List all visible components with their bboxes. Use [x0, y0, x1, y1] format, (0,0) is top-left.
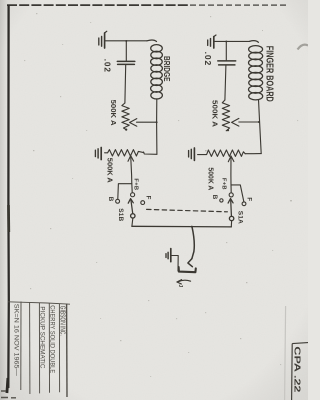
jack J tip contact	[188, 259, 193, 267]
ground G2 (R2 left end)	[95, 147, 101, 159]
svg-text:SK=N 16 NOV 1965—: SK=N 16 NOV 1965—	[12, 304, 18, 376]
contact F (S1B)	[141, 201, 145, 205]
svg-text:500K A: 500K A	[109, 100, 118, 127]
svg-text:500K A: 500K A	[105, 158, 114, 184]
wire: branch to B contact	[118, 184, 132, 199]
volume pot R2 500K A (horizontal zigzag)	[105, 150, 144, 156]
bridge coil L1	[147, 40, 162, 99]
svg-text:500K A: 500K A	[210, 100, 219, 128]
title block row rules	[20, 302, 22, 391]
capacitor C2 .02	[218, 61, 236, 65]
svg-text:FINGER BOARD: FINGER BOARD	[263, 46, 274, 102]
wiper of R4 (arrow up, stem to switch)	[228, 156, 234, 192]
wire: L1 bottom to hot bus down	[156, 99, 158, 155]
svg-text:GIBSON INC.: GIBSON INC.	[58, 306, 67, 336]
wire: S1A pole to output bus	[230, 221, 232, 227]
pole of S1B	[131, 214, 135, 218]
tone pot R3 500K A (vertical zigzag)	[222, 100, 229, 131]
ground G4 (R4 left end)	[189, 148, 195, 160]
wire: S1B pole to output bus	[131, 219, 134, 227]
ground G3 (finger top)	[208, 35, 216, 48]
svg-text:B: B	[107, 197, 114, 202]
wire: bus corner to volume pot R2	[144, 152, 157, 154]
wire: G5 to sleeve	[171, 256, 178, 272]
wire: G1 to bridge coil top	[105, 40, 147, 42]
junction dots	[125, 40, 260, 228]
switch S1B blade	[128, 199, 133, 214]
capacitor C1 .02	[117, 61, 135, 64]
svg-text:500K A: 500K A	[206, 167, 215, 191]
contact B (S1A, floating)	[220, 199, 223, 202]
wiper of R1 (arrow to hot bus)	[130, 119, 157, 127]
switch S1A blade	[228, 199, 233, 216]
wire: bus to jack tip	[192, 227, 194, 259]
svg-text:S1A: S1A	[237, 211, 244, 224]
svg-text:F: F	[144, 196, 151, 200]
pole of S1A	[229, 216, 233, 220]
wire: C1 to tone pot R1	[124, 65, 127, 103]
page border: bottom-left end	[7, 378, 8, 393]
wire: G3 to finger coil top	[215, 40, 250, 42]
output bus wire	[132, 225, 231, 228]
title block top rule	[8, 302, 70, 304]
contact B (S1B)	[116, 199, 120, 203]
svg-text:F+B: F+B	[132, 178, 138, 190]
title block	[8, 302, 70, 398]
wire: C2 to tone pot R3	[225, 65, 226, 100]
wiper of R2 (arrow up, stem to switch)	[128, 156, 134, 192]
page border: left rule	[7, 5, 10, 388]
ground G1 (bridge top)	[99, 31, 107, 48]
svg-text:BRIDGE: BRIDGE	[162, 56, 172, 82]
contact F+B common (S1B)	[131, 193, 135, 197]
svg-text:S1B: S1B	[117, 208, 124, 221]
wiper of R3 (arrow to hot bus)	[232, 118, 259, 126]
wire: L2 bottom hot bus down	[259, 100, 262, 154]
ground G5 (jack sleeve)	[166, 249, 171, 262]
svg-text:.02: .02	[203, 52, 212, 67]
svg-text:J: J	[177, 284, 183, 287]
crease bottom-right	[285, 306, 286, 400]
jack J sleeve	[179, 267, 196, 272]
finger coil L2	[249, 41, 263, 100]
svg-text:PICKUP SCHEMATIC: PICKUP SCHEMATIC	[38, 306, 45, 368]
CPA 22 box	[292, 343, 308, 400]
svg-text:B: B	[211, 195, 218, 200]
wire: cap tap down	[225, 42, 227, 61]
dashed gang link S1B-S1A	[147, 209, 228, 211]
contact F+B common (S1A)	[229, 193, 233, 197]
wire: branch to F contact	[231, 185, 244, 202]
svg-text:CPA .22: CPA .22	[292, 346, 302, 392]
svg-text:CHERRY SOLID DOUBLE: CHERRY SOLID DOUBLE	[48, 305, 55, 373]
svg-text:F: F	[245, 197, 252, 201]
tone pot R1 500K A (vertical zigzag)	[122, 103, 129, 130]
smudge top-right	[298, 45, 309, 50]
svg-text:F+B: F+B	[220, 178, 226, 190]
jack label arrow	[178, 280, 190, 282]
svg-text:.02: .02	[102, 59, 111, 73]
page border: top dashed rule	[7, 4, 286, 6]
wire: bus corner to volume pot R4	[245, 153, 261, 155]
contact F (S1A)	[242, 202, 246, 206]
wire: cap tap down	[125, 41, 127, 61]
volume pot R4 500K A (horizontal zigzag)	[198, 150, 246, 156]
